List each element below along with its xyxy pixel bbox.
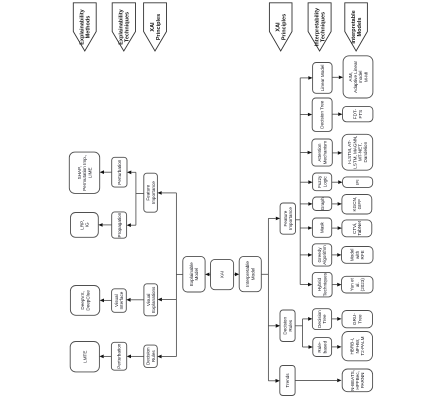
node "Graph" bbox=[313, 197, 332, 211]
arrow Trends to N-BEATS leaf bbox=[337, 379, 341, 383]
arrow into Decision Rules (right) bbox=[276, 324, 280, 328]
svg-text:FuzzyLogic: FuzzyLogic bbox=[317, 175, 327, 188]
arrow Graph to KGCN leaf bbox=[338, 202, 342, 206]
right sub-trunk vertical (decision rules children) bbox=[302, 319, 304, 347]
svg-text:DeepVX,DeepClue: DeepVX,DeepClue bbox=[80, 290, 90, 311]
svg-text:Perturbation: Perturbation bbox=[117, 343, 122, 368]
leaf "LMTE" bbox=[70, 342, 99, 372]
arrow into Perturbation (upper) bbox=[127, 171, 131, 175]
node "Visual Explanations" bbox=[144, 284, 158, 316]
svg-text:N-BEATS,HPFBec,PARNN: N-BEATS,HPFBec,PARNN bbox=[350, 370, 365, 391]
svg-text:XAI: XAI bbox=[220, 271, 225, 278]
svg-text:Rule-based: Rule-based bbox=[317, 340, 327, 353]
node "Decision Rules" (left) bbox=[144, 345, 158, 367]
svg-text:Linear Model: Linear Model bbox=[320, 65, 325, 92]
node "Fuzzy Logic" bbox=[313, 173, 332, 191]
svg-text:ExplainabilityTechniques: ExplainabilityTechniques bbox=[119, 8, 131, 44]
pennant "Interpretable Models" bbox=[345, 3, 368, 51]
arrow into Rule-based bbox=[309, 345, 313, 349]
arrow into Feature Importance (right) bbox=[276, 217, 280, 221]
svg-text:HBRB-I,NFHW,T2-PALM: HBRB-I,NFHW,T2-PALM bbox=[350, 336, 365, 355]
node "Feature Importance" (left) bbox=[144, 173, 158, 212]
node "Rule-based" bbox=[313, 338, 332, 357]
svg-text:Propagation: Propagation bbox=[117, 212, 122, 237]
arrow into Propagation bbox=[127, 223, 131, 227]
leaf "FDT- FTS" bbox=[343, 106, 373, 121]
arrow Decision Tree to FDT leaf bbox=[338, 112, 342, 116]
arrow into Decision Rules (left) bbox=[157, 355, 161, 359]
node "Decision Tree" (decision rules) bbox=[312, 309, 331, 330]
leaf "GRU-Tree" bbox=[342, 311, 373, 328]
node "Explainable Model" bbox=[183, 256, 205, 292]
left trunk vertical bbox=[175, 193, 177, 357]
arrow Visual Interface to DeepVX leaf bbox=[100, 299, 104, 303]
svg-text:FDT-FTS: FDT-FTS bbox=[353, 109, 363, 120]
leaf "Model with RFE" bbox=[342, 247, 374, 264]
arrow into Linear Model bbox=[308, 76, 312, 80]
svg-text:GreedyAlgorithm: GreedyAlgorithm bbox=[317, 245, 327, 265]
arrow Propagation to LRP leaf bbox=[98, 223, 102, 227]
arrow into Hybrid Techniques bbox=[308, 283, 312, 287]
node "Perturbation" (upper) bbox=[112, 157, 127, 187]
arrow into Fuzzy Logic bbox=[308, 180, 312, 184]
arrow into Greedy Algorithm bbox=[308, 253, 312, 257]
arrow Mask to CTVi leaf bbox=[338, 226, 342, 230]
leaf "IFI" bbox=[343, 177, 373, 188]
svg-text:IFI: IFI bbox=[355, 180, 360, 185]
arrow into Mask bbox=[308, 226, 312, 230]
arrow Visual Explanations to Visual Interface bbox=[126, 298, 130, 302]
arrow Rule-based to HBRB leaf bbox=[337, 345, 341, 349]
node "Propagation" bbox=[112, 212, 127, 238]
arrow Decision Rules to Perturbation (lower) bbox=[127, 355, 131, 359]
arrow Fuzzy Logic to IFI leaf bbox=[338, 180, 342, 184]
node "Linear Model" bbox=[313, 63, 333, 94]
arrow Perturbation to SHAP leaf bbox=[100, 170, 104, 174]
leaf "N-BEATS, HPFBec, PARNN" bbox=[342, 369, 372, 392]
arrow into Graph bbox=[308, 202, 312, 206]
arrow into Attention Mechanism bbox=[308, 151, 312, 155]
node "Trends" bbox=[280, 366, 295, 396]
pennant "Explainability Methods" bbox=[73, 3, 96, 51]
arrow Linear Model to AIM leaf bbox=[339, 76, 343, 80]
node "Decision Tree" (feature importance) bbox=[312, 98, 332, 131]
pennant "Interpretability Techniques" bbox=[308, 3, 331, 51]
node "Mask" bbox=[312, 218, 331, 237]
right trunk vertical bbox=[267, 218, 269, 380]
arrow into Decision Tree bbox=[308, 113, 312, 117]
leaf "AIM, Adaptive Linear model M-MI" bbox=[343, 56, 373, 98]
pennant "Explainability Techniques" bbox=[112, 3, 135, 51]
node "Decision Rules" (right) bbox=[280, 310, 295, 342]
arrow into Trends bbox=[276, 379, 280, 383]
node "XAI" (root) bbox=[211, 259, 234, 289]
svg-text:KGCN,GIFF: KGCN,GIFF bbox=[352, 197, 362, 212]
node "Feature Importance" (right) bbox=[280, 203, 295, 234]
svg-text:AttentionMechanism: AttentionMechanism bbox=[317, 141, 327, 165]
svg-text:Perturbation: Perturbation bbox=[117, 159, 122, 184]
leaf "LRP, IG" bbox=[71, 213, 99, 238]
svg-text:Mask: Mask bbox=[320, 222, 325, 234]
node "Hybrid Techniques" bbox=[312, 272, 332, 297]
arrow Hybrid Techniques to Yun leaf bbox=[337, 283, 341, 287]
arrow XAI to Explainable Model bbox=[205, 273, 209, 277]
leaf "I-LSTM, AT-LSTM, MAGNN, MT-NET, Dandelion" bbox=[342, 134, 373, 170]
leaf "Yun et al. (2023)" bbox=[342, 276, 374, 293]
leaf "CTVi, TabNet" bbox=[342, 220, 372, 237]
pennant "XAI Principles" (left) bbox=[144, 3, 167, 51]
node "Visual Interface" bbox=[112, 289, 127, 313]
svg-text:Decision Tree: Decision Tree bbox=[320, 100, 325, 129]
node "Attention Mechanism" bbox=[312, 139, 332, 166]
wire Feature Importance (left) to sub-trunk bbox=[136, 193, 144, 195]
arrow Decision Tree to GRU-Tree leaf bbox=[337, 317, 341, 321]
node "Greedy Algorithm" bbox=[312, 244, 331, 266]
arrow Attention Mechanism to I-LSTM leaf bbox=[338, 151, 342, 155]
svg-text:GRU-Tree: GRU-Tree bbox=[352, 313, 362, 325]
pennant "XAI Principles" (right) bbox=[269, 3, 292, 51]
arrow into Feature Importance (left) bbox=[157, 191, 161, 195]
arrow into Visual Explanations bbox=[158, 298, 162, 302]
wire Explainable Model to left trunk bbox=[176, 273, 182, 275]
svg-text:LMTE: LMTE bbox=[82, 351, 87, 363]
svg-text:Graph: Graph bbox=[320, 197, 325, 210]
wire Decision Rules (right) to sub-trunk bbox=[295, 325, 302, 327]
svg-text:Trends: Trends bbox=[285, 373, 290, 388]
right sub-trunk vertical (feature importance children) bbox=[299, 78, 301, 285]
leaf "KGCN, GIFF" bbox=[342, 195, 372, 215]
leaf "DeepVX, DeepClue" bbox=[70, 286, 99, 316]
svg-text:InterpretabilityTechniques: InterpretabilityTechniques bbox=[315, 7, 327, 46]
arrow into Decision Tree (decision rules) bbox=[308, 317, 312, 321]
arrow XAI to Interpretable Model bbox=[235, 272, 239, 276]
arrow Greedy Algorithm to Model-with-RFE leaf bbox=[337, 253, 341, 257]
leaf "SHAP, Permutation Imp., LIME" bbox=[69, 152, 99, 193]
arrow Perturbation to LMTE leaf bbox=[99, 355, 103, 359]
left sub-trunk vertical bbox=[135, 172, 137, 225]
wire Interpretable Model to right trunk bbox=[261, 273, 268, 275]
leaf "HBRB-I, NFHW, T2-PALM" bbox=[342, 332, 373, 361]
node "Interpretable Model" bbox=[239, 256, 261, 291]
wire Feature Importance (right) to sub-trunk bbox=[296, 219, 301, 221]
node "Perturbation" (lower) bbox=[111, 342, 126, 370]
